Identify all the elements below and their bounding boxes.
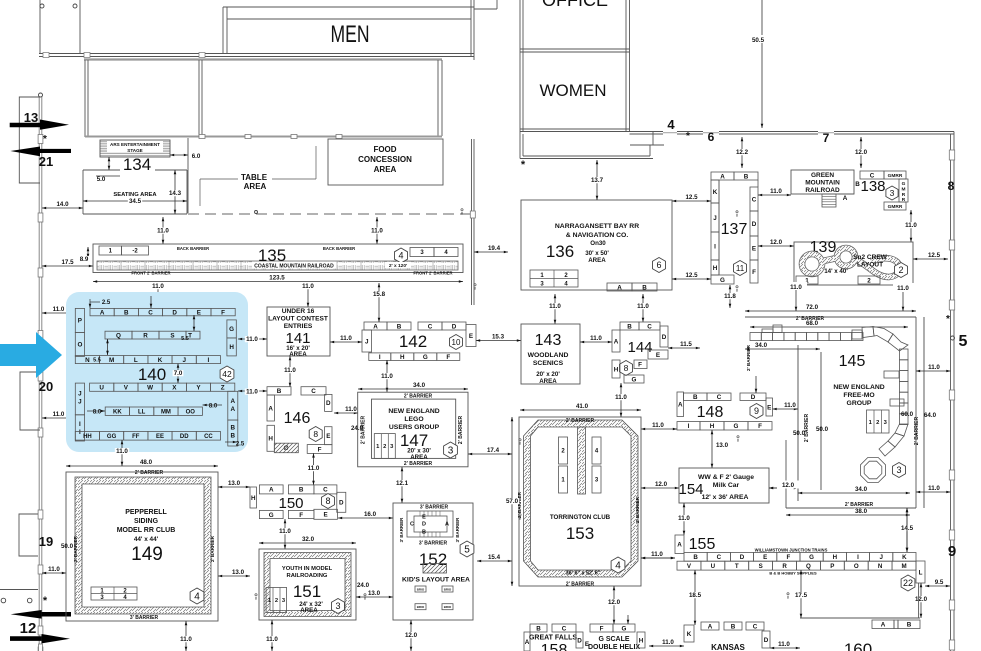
svg-text:50.0: 50.0	[61, 543, 74, 550]
svg-text:C: C	[717, 554, 722, 561]
svg-text:5: 5	[959, 333, 968, 350]
svg-text:E: E	[197, 309, 201, 316]
svg-text:D: D	[752, 221, 757, 228]
svg-text:6.0: 6.0	[192, 153, 201, 160]
svg-text:I: I	[714, 243, 716, 250]
svg-text:F: F	[787, 554, 791, 561]
svg-text:11.0: 11.0	[266, 636, 278, 643]
svg-text:B: B	[693, 554, 698, 561]
svg-text:148: 148	[697, 404, 724, 421]
svg-text:I: I	[688, 423, 690, 430]
svg-text:R: R	[143, 332, 148, 339]
svg-text:3' BARRIER: 3' BARRIER	[399, 517, 404, 543]
svg-text:155: 155	[689, 536, 716, 553]
svg-text:YOUTH IN MODEL: YOUTH IN MODEL	[282, 566, 333, 572]
svg-text:12.5: 12.5	[685, 194, 698, 201]
svg-text:KID'S LAYOUT AREA: KID'S LAYOUT AREA	[402, 577, 470, 584]
svg-text:11.8: 11.8	[724, 293, 736, 300]
svg-text:18.5: 18.5	[689, 592, 702, 599]
svg-text:13.0: 13.0	[716, 442, 729, 449]
svg-text:15.4: 15.4	[488, 554, 501, 561]
svg-text:B: B	[744, 173, 749, 180]
svg-text:OO: OO	[186, 409, 196, 415]
svg-text:LEGO: LEGO	[404, 416, 423, 423]
svg-text:160: 160	[844, 640, 872, 651]
svg-text:I: I	[857, 554, 859, 561]
svg-text:F: F	[638, 362, 642, 369]
svg-text:48.0: 48.0	[140, 459, 153, 466]
svg-text:11: 11	[736, 264, 745, 273]
svg-text:2' BARRIER: 2' BARRIER	[458, 416, 464, 445]
svg-text:19: 19	[39, 534, 53, 549]
svg-text:L: L	[919, 569, 923, 576]
svg-text:3' BARRIER: 3' BARRIER	[419, 541, 448, 547]
svg-text:3: 3	[890, 188, 895, 198]
svg-text:2' BARRIER: 2' BARRIER	[210, 535, 215, 562]
svg-text:K: K	[713, 189, 718, 196]
svg-text:D: D	[339, 500, 344, 507]
svg-text:E: E	[752, 245, 756, 252]
svg-text:21: 21	[39, 154, 53, 169]
svg-text:GROUP: GROUP	[847, 400, 872, 407]
svg-text:J: J	[78, 399, 82, 406]
svg-text:11.0: 11.0	[180, 636, 192, 643]
svg-text:F: F	[600, 625, 604, 632]
svg-text:E: E	[324, 512, 328, 519]
svg-text:11.0: 11.0	[279, 528, 291, 535]
svg-text:4: 4	[615, 561, 621, 572]
svg-text:11.0: 11.0	[340, 335, 352, 342]
svg-text:12.0: 12.0	[770, 239, 783, 246]
svg-text:B: B	[231, 433, 236, 440]
svg-text:11.0: 11.0	[246, 389, 258, 396]
svg-text:6: 6	[656, 260, 661, 270]
svg-text:154: 154	[678, 481, 703, 498]
svg-text:11.0: 11.0	[284, 367, 296, 374]
svg-text:2' BARRIER: 2' BARRIER	[404, 461, 433, 467]
svg-text:B & B HOBBY SUPPLIES: B & B HOBBY SUPPLIES	[769, 571, 817, 576]
svg-text:11.0: 11.0	[371, 228, 383, 235]
svg-text:13.0: 13.0	[232, 569, 245, 576]
svg-text:C: C	[323, 487, 328, 494]
svg-text:DOUBLE HELIX: DOUBLE HELIX	[588, 644, 640, 651]
svg-text:J: J	[182, 357, 186, 364]
svg-text:5.5: 5.5	[181, 336, 189, 342]
svg-text:FREE-MO: FREE-MO	[843, 392, 874, 399]
svg-text:AREA: AREA	[539, 378, 557, 385]
svg-text:11.0: 11.0	[615, 394, 627, 401]
svg-text:8: 8	[737, 439, 739, 443]
svg-text:A: A	[231, 398, 236, 405]
svg-text:G: G	[902, 181, 906, 187]
svg-text:M: M	[901, 563, 906, 570]
svg-text:140: 140	[138, 365, 166, 384]
svg-text:W: W	[147, 384, 153, 391]
svg-text:13.7: 13.7	[591, 177, 604, 184]
svg-text:*: *	[43, 595, 48, 607]
svg-text:WILLIAMSTOWN JUNCTION TRAI: WILLIAMSTOWN JUNCTION TRAINS	[755, 548, 828, 553]
svg-text:12.2: 12.2	[736, 149, 749, 156]
svg-text:B: B	[299, 487, 304, 494]
svg-text:11.0: 11.0	[590, 335, 602, 342]
svg-text:H: H	[710, 423, 715, 430]
svg-text:12.5: 12.5	[928, 252, 941, 259]
svg-text:Z: Z	[221, 384, 225, 391]
svg-text:S: S	[759, 563, 763, 570]
svg-text:SIDING: SIDING	[134, 518, 159, 525]
svg-text:8.9: 8.9	[80, 256, 89, 263]
svg-text:Q: Q	[806, 563, 811, 570]
svg-text:A: A	[614, 338, 619, 345]
svg-text:11.0: 11.0	[302, 283, 314, 290]
svg-text:E: E	[469, 333, 473, 340]
svg-text:11.0: 11.0	[345, 406, 357, 413]
svg-text:G: G	[809, 554, 814, 561]
svg-text:11.0: 11.0	[790, 284, 802, 291]
svg-text:F: F	[758, 423, 762, 430]
svg-text:13.0: 13.0	[368, 590, 381, 597]
svg-text:B: B	[855, 181, 860, 188]
svg-text:2' x 120': 2' x 120'	[389, 263, 407, 269]
svg-text:C: C	[148, 309, 153, 316]
svg-text:WW & F 2' Gauge: WW & F 2' Gauge	[698, 474, 754, 481]
svg-text:Q: Q	[116, 332, 121, 339]
svg-text:ENTRIES: ENTRIES	[284, 323, 313, 330]
svg-text:D: D	[452, 323, 457, 330]
svg-text:11.0: 11.0	[381, 373, 393, 380]
svg-text:34.0: 34.0	[755, 342, 768, 349]
svg-text:11.0: 11.0	[48, 566, 60, 573]
svg-text:A: A	[231, 406, 236, 413]
svg-text:H: H	[833, 554, 838, 561]
svg-text:19.4: 19.4	[488, 245, 501, 252]
svg-text:A: A	[617, 284, 622, 291]
svg-text:136: 136	[546, 242, 574, 261]
svg-text:F: F	[752, 269, 756, 276]
svg-text:5: 5	[464, 545, 470, 556]
svg-text:34.5: 34.5	[129, 198, 142, 205]
svg-text:D: D	[751, 394, 756, 401]
svg-text:O: O	[77, 342, 82, 349]
svg-text:G: G	[423, 354, 428, 361]
svg-text:12: 12	[20, 620, 37, 637]
svg-text:151: 151	[293, 582, 321, 601]
svg-text:*: *	[43, 134, 47, 145]
svg-text:C: C	[717, 394, 722, 401]
svg-text:J: J	[879, 554, 883, 561]
svg-text:R: R	[782, 563, 787, 570]
svg-text:8: 8	[364, 597, 366, 601]
svg-text:17.5: 17.5	[61, 259, 74, 266]
svg-text:Milk Car: Milk Car	[713, 482, 740, 489]
svg-text:G: G	[734, 423, 739, 430]
svg-text:2' BARRIER: 2' BARRIER	[914, 417, 920, 446]
svg-text:GREEN: GREEN	[811, 172, 834, 179]
svg-text:H: H	[229, 344, 234, 351]
svg-text:150: 150	[278, 495, 303, 512]
svg-text:M: M	[902, 186, 906, 192]
svg-text:14' x 40': 14' x 40'	[824, 268, 848, 275]
svg-text:B: B	[277, 388, 282, 395]
svg-text:E: E	[763, 554, 767, 561]
svg-text:3' BARRIER: 3' BARRIER	[455, 517, 460, 543]
svg-text:11.0: 11.0	[928, 364, 940, 371]
svg-text:AREA: AREA	[410, 454, 428, 461]
svg-text:CONCESSION: CONCESSION	[358, 155, 412, 164]
svg-text:G: G	[720, 277, 725, 284]
svg-text:11.0: 11.0	[905, 222, 917, 229]
svg-text:L: L	[134, 357, 138, 364]
svg-text:8: 8	[736, 214, 738, 218]
svg-text:11.0: 11.0	[157, 228, 169, 235]
svg-text:11.0: 11.0	[652, 422, 664, 429]
svg-text:D: D	[172, 309, 177, 316]
svg-text:38.0: 38.0	[855, 508, 868, 515]
svg-text:NARRAGANSETT BAY RR: NARRAGANSETT BAY RR	[555, 223, 639, 230]
svg-text:FF: FF	[132, 434, 140, 440]
svg-text:G SCALE: G SCALE	[598, 636, 629, 643]
svg-text:12.0: 12.0	[405, 632, 418, 639]
svg-text:12' x 36' AREA: 12' x 36' AREA	[702, 494, 749, 501]
svg-text:8.0: 8.0	[93, 410, 102, 416]
svg-text:NEW ENGLAND: NEW ENGLAND	[388, 408, 439, 415]
svg-text:20: 20	[39, 379, 53, 394]
svg-text:A: A	[708, 623, 713, 630]
svg-text:CC: CC	[204, 434, 213, 440]
svg-text:& NAVIGATION CO.: & NAVIGATION CO.	[566, 232, 629, 239]
svg-text:G: G	[632, 376, 637, 383]
svg-text:H: H	[251, 495, 256, 502]
svg-text:A: A	[445, 522, 449, 528]
svg-text:2' BARRIER: 2' BARRIER	[73, 535, 78, 562]
svg-text:12.0: 12.0	[782, 482, 795, 489]
svg-text:D: D	[662, 334, 667, 341]
svg-text:D: D	[577, 637, 582, 644]
svg-text:D: D	[422, 522, 426, 528]
svg-text:138: 138	[860, 178, 885, 195]
svg-text:12.5: 12.5	[685, 272, 698, 279]
svg-text:RAILROAD: RAILROAD	[805, 187, 840, 194]
svg-text:8: 8	[948, 179, 955, 193]
svg-text:GMRR: GMRR	[888, 173, 903, 179]
svg-text:8: 8	[624, 363, 629, 373]
svg-text:15.3: 15.3	[492, 334, 505, 341]
svg-text:137: 137	[721, 221, 748, 238]
svg-text:F: F	[299, 512, 303, 519]
svg-text:*: *	[686, 131, 690, 142]
svg-text:8.0: 8.0	[209, 404, 218, 410]
svg-text:H: H	[400, 354, 405, 361]
svg-text:17.4: 17.4	[487, 447, 500, 454]
svg-text:STAGE: STAGE	[127, 148, 142, 153]
svg-text:B: B	[422, 530, 426, 536]
svg-text:MODEL RR CLUB: MODEL RR CLUB	[117, 527, 176, 534]
svg-text:8: 8	[474, 287, 476, 291]
svg-text:O: O	[854, 563, 859, 570]
svg-text:E: E	[326, 433, 330, 440]
svg-text:3: 3	[448, 446, 454, 457]
svg-text:SCENICS: SCENICS	[533, 360, 564, 367]
svg-text:50.5: 50.5	[752, 37, 765, 44]
svg-text:30' x 50': 30' x 50'	[585, 250, 609, 257]
svg-text:FRONT 2' BARRIER: FRONT 2' BARRIER	[131, 271, 170, 276]
svg-text:11.0: 11.0	[662, 639, 674, 646]
svg-text:11.0: 11.0	[549, 303, 561, 310]
svg-text:3' BARRIER: 3' BARRIER	[420, 505, 449, 511]
svg-text:PEPPERELL: PEPPERELL	[125, 509, 167, 516]
svg-text:AREA: AREA	[244, 182, 267, 191]
svg-text:10: 10	[452, 338, 461, 347]
svg-text:4: 4	[194, 592, 200, 603]
svg-text:BACK BARRIER: BACK BARRIER	[177, 246, 209, 251]
svg-text:14.3: 14.3	[169, 190, 182, 197]
svg-text:I: I	[79, 429, 81, 436]
svg-text:AREA: AREA	[300, 607, 318, 614]
svg-text:14.0: 14.0	[56, 201, 69, 208]
svg-text:N: N	[85, 357, 90, 364]
svg-text:I: I	[208, 357, 210, 364]
svg-text:C: C	[428, 323, 433, 330]
svg-text:A: A	[678, 402, 683, 409]
svg-text:A: A	[881, 622, 886, 629]
svg-text:B: B	[907, 622, 912, 629]
svg-text:7.0: 7.0	[174, 370, 183, 377]
svg-text:2: 2	[275, 598, 278, 604]
svg-text:12.0: 12.0	[608, 599, 621, 606]
svg-text:41.0: 41.0	[576, 403, 589, 410]
svg-text:BRIO: BRIO	[444, 588, 452, 592]
svg-text:MEN: MEN	[331, 21, 370, 48]
svg-text:LAYOUT CONTEST: LAYOUT CONTEST	[268, 316, 328, 323]
svg-text:B: B	[627, 323, 632, 330]
svg-text:RAILROADING: RAILROADING	[287, 573, 328, 579]
svg-text:GMRR: GMRR	[888, 204, 903, 210]
svg-text:F: F	[221, 309, 225, 316]
svg-text:M: M	[109, 357, 114, 364]
svg-text:2: 2	[867, 277, 871, 284]
svg-text:KANSAS: KANSAS	[711, 643, 745, 651]
svg-text:LL: LL	[138, 409, 146, 415]
svg-text:153: 153	[566, 524, 594, 543]
svg-text:Sn2 CREW: Sn2 CREW	[853, 254, 887, 261]
svg-text:P: P	[78, 318, 82, 325]
svg-text:9: 9	[754, 406, 759, 416]
svg-text:I: I	[79, 421, 81, 428]
svg-text:5.0: 5.0	[97, 176, 106, 183]
svg-text:D: D	[740, 554, 745, 561]
svg-text:2.5: 2.5	[236, 442, 245, 448]
svg-text:B: B	[231, 425, 236, 432]
svg-text:6: 6	[708, 130, 715, 144]
svg-text:22: 22	[903, 578, 913, 588]
svg-text:NEW ENGLAND: NEW ENGLAND	[833, 384, 884, 391]
svg-text:4: 4	[667, 117, 675, 132]
svg-text:3: 3	[896, 465, 901, 475]
svg-text:B: B	[642, 284, 647, 291]
svg-text:17.5: 17.5	[795, 592, 808, 599]
svg-text:2' BARRIER: 2' BARRIER	[804, 414, 810, 443]
svg-text:E: E	[767, 404, 771, 411]
svg-text:MOUNTAIN: MOUNTAIN	[805, 180, 840, 187]
svg-text:GREAT FALLS: GREAT FALLS	[529, 635, 577, 642]
svg-text:-2: -2	[132, 249, 138, 255]
svg-text:11.0: 11.0	[928, 485, 940, 492]
svg-text:F: F	[318, 446, 322, 453]
svg-text:11.0: 11.0	[152, 283, 164, 290]
svg-text:8: 8	[519, 442, 521, 446]
svg-text:68.0: 68.0	[806, 320, 819, 327]
svg-text:B: B	[693, 394, 698, 401]
svg-text:B: B	[124, 309, 129, 316]
svg-text:AREA: AREA	[374, 165, 397, 174]
svg-text:F: F	[446, 354, 450, 361]
svg-text:34.0: 34.0	[855, 486, 868, 493]
svg-text:2' BARRIER: 2' BARRIER	[404, 394, 433, 400]
svg-text:FRONT 2' BARRIER: FRONT 2' BARRIER	[413, 271, 452, 276]
svg-text:2' BARRIER: 2' BARRIER	[566, 582, 595, 588]
svg-text:USERS GROUP: USERS GROUP	[389, 424, 440, 431]
svg-text:32.0: 32.0	[302, 536, 315, 543]
svg-text:C: C	[753, 623, 758, 630]
svg-text:2' BARRIER: 2' BARRIER	[845, 502, 874, 508]
svg-text:44' x 44': 44' x 44'	[134, 536, 159, 543]
svg-text:11.0: 11.0	[897, 285, 909, 292]
svg-text:11.0: 11.0	[53, 411, 65, 418]
svg-text:36' 6" x 52' 6": 36' 6" x 52' 6"	[566, 571, 601, 577]
svg-text:K: K	[902, 554, 907, 561]
svg-text:GG: GG	[107, 434, 117, 440]
svg-text:COASTAL MOUNTAIN RAILROAD: COASTAL MOUNTAIN RAILROAD	[254, 264, 334, 270]
svg-text:H: H	[713, 265, 718, 272]
svg-text:U: U	[711, 563, 716, 570]
svg-text:OFFICE: OFFICE	[542, 0, 608, 10]
svg-text:BRIO: BRIO	[417, 588, 425, 592]
svg-text:*: *	[946, 314, 950, 325]
svg-text:60.0: 60.0	[901, 411, 914, 418]
svg-text:C: C	[311, 388, 316, 395]
svg-text:AREA: AREA	[588, 257, 606, 264]
svg-text:EE: EE	[156, 434, 164, 440]
svg-text:WOODLAND: WOODLAND	[528, 352, 569, 359]
svg-text:11.0: 11.0	[651, 551, 663, 558]
svg-text:A: A	[373, 323, 378, 330]
svg-text:16.0: 16.0	[364, 511, 377, 518]
svg-text:11.0: 11.0	[637, 303, 649, 310]
svg-text:2.5: 2.5	[102, 300, 111, 306]
svg-text:3' BARRIER: 3' BARRIER	[130, 615, 159, 621]
svg-text:20' x 20': 20' x 20'	[536, 371, 560, 378]
svg-text:TORRINGTON CLUB: TORRINGTON CLUB	[550, 514, 611, 521]
svg-text:42: 42	[222, 369, 232, 379]
svg-text:B: B	[731, 623, 736, 630]
svg-text:U: U	[99, 384, 104, 391]
svg-text:B: B	[536, 625, 541, 632]
svg-text:2' BARRIER: 2' BARRIER	[135, 470, 164, 476]
svg-text:G: G	[622, 625, 627, 632]
svg-text:8: 8	[461, 212, 463, 216]
svg-text:KK: KK	[113, 409, 122, 415]
svg-text:I: I	[379, 354, 381, 361]
svg-text:K: K	[687, 631, 692, 638]
svg-text:12.0: 12.0	[655, 481, 668, 488]
svg-text:AREA: AREA	[289, 351, 307, 358]
svg-text:MM: MM	[161, 409, 171, 415]
svg-text:A: A	[677, 542, 682, 549]
svg-text:UNDER 16: UNDER 16	[282, 308, 315, 315]
svg-text:9: 9	[948, 543, 956, 560]
svg-text:2' BARRIER: 2' BARRIER	[635, 496, 640, 523]
svg-text:H: H	[614, 366, 619, 373]
